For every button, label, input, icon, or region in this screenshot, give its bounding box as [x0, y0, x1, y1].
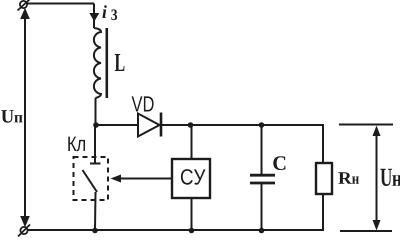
arrow i3 current direction	[89, 13, 99, 22]
Un bottom tick	[340, 230, 392, 232]
bottom rail wire	[28, 229, 324, 231]
label VD diode	[132, 96, 154, 111]
wire top horizontal	[27, 3, 94, 5]
capacitor C bottom plate	[250, 182, 275, 185]
switch blade	[83, 170, 98, 192]
label Up supply voltage	[1, 110, 22, 123]
Up source voltage arrow line	[24, 13, 26, 221]
node D junction dot (switch bottom)	[92, 228, 98, 234]
Un arrowhead down	[373, 220, 381, 231]
node A junction dot	[93, 122, 99, 128]
Up arrowhead down	[20, 216, 30, 227]
wire diode to resistor corner (top rail)	[161, 124, 323, 126]
label i3 current	[102, 5, 117, 20]
SU control arrowhead	[111, 175, 122, 183]
wire top rail down to resistor	[322, 124, 324, 163]
inductor L coil	[94, 28, 101, 98]
input terminal top	[18, 0, 30, 11]
control unit SU box	[172, 159, 210, 198]
switch fixed contact tick	[90, 163, 101, 165]
wire switch to bottom rail	[94, 192, 97, 230]
node B junction dot (SU branch)	[188, 122, 194, 128]
diode VD triangle	[138, 114, 160, 137]
wire resistor to bottom rail	[322, 194, 324, 231]
wire inductor to node A	[95, 98, 97, 125]
switch Kl dashed enclosure	[74, 157, 109, 200]
label SU control unit	[181, 169, 206, 185]
node C junction dot (capacitor branch)	[259, 122, 265, 128]
wire top-right vertical drop	[93, 4, 95, 29]
label Rn load resistance	[338, 172, 359, 184]
node F junction dot (capacitor bottom)	[259, 228, 265, 234]
capacitor C top plate	[250, 174, 275, 177]
node E junction dot (SU bottom)	[189, 228, 195, 234]
wire capacitor top	[261, 125, 263, 174]
label Un output voltage	[380, 169, 400, 186]
wire SU bottom to rail	[191, 198, 193, 230]
Up arrowhead up	[20, 8, 30, 19]
label Kl switch	[68, 137, 85, 152]
wire capacitor bottom	[261, 184, 263, 230]
input terminal bottom	[18, 225, 30, 237]
inductor core bar	[106, 28, 109, 98]
wire node A down to switch	[94, 125, 96, 163]
wire node A to diode anode	[96, 124, 138, 126]
label L inductance	[115, 54, 125, 71]
Un output voltage arrow line	[376, 128, 378, 227]
Un top tick	[339, 124, 393, 126]
wire SU top to rail	[191, 125, 193, 159]
label C capacitance	[273, 156, 285, 170]
SU control arrow wire to switch	[117, 178, 172, 180]
diode VD cathode bar	[160, 113, 163, 137]
resistor Rn box	[316, 163, 332, 194]
Un arrowhead up	[373, 126, 381, 137]
